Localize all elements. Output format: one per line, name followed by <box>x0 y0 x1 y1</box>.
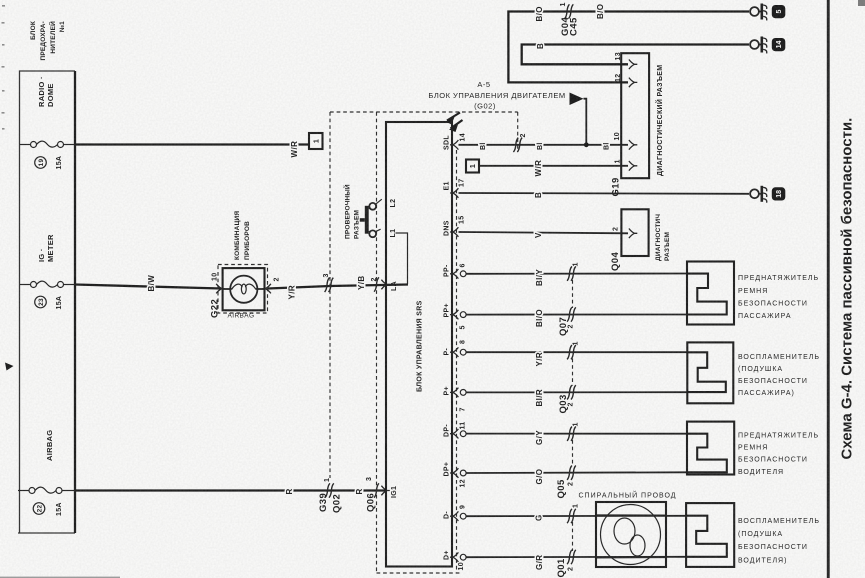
wire L1 to LA net <box>396 233 408 284</box>
bottom edge scan smudge <box>0 577 120 578</box>
label ПРЕДНАТЯЖИТЕЛЬ РЕМНЯ БЕЗОПАСНОСТИ ВОДИТЕЛЯ <box>738 433 819 477</box>
pin 7 fork P+ <box>450 388 467 412</box>
arrow mark left margin <box>5 363 14 371</box>
wire G D- to spiral cable <box>466 515 687 517</box>
dashed boundary left edge (connector plane Q02/G39) <box>329 112 331 478</box>
load box igniter passenger airbag <box>687 342 733 403</box>
fuse 19 (15A) <box>20 141 75 147</box>
label fuse 23 circled <box>35 296 47 308</box>
pin 9 fork D- <box>450 505 467 521</box>
connector box 1 (to G19 pin 1) <box>466 160 479 173</box>
pin 10 cluster <box>212 273 225 294</box>
connector break Q05 lower <box>556 466 576 499</box>
connector break Q06 <box>366 477 379 512</box>
G19 pin 1 fork <box>615 159 638 170</box>
connector break Q01 lower <box>556 550 576 578</box>
wire Y/R P- to igniter passenger <box>466 351 687 353</box>
label RADIO DOME <box>37 76 55 107</box>
airbag warning lamp <box>223 276 265 303</box>
connector break Q07 lower <box>558 307 576 336</box>
dashed link Q03 <box>572 359 574 386</box>
pin 11 fork DP- <box>450 422 467 439</box>
wire B to G19 pin 13 <box>522 45 749 65</box>
wire G/R D+ to spiral cable <box>466 556 687 558</box>
Q04 pin 2 fork <box>613 227 638 238</box>
wire B E1 to ground <box>459 192 750 195</box>
ground top B <box>750 37 785 54</box>
wire G/O DP+ to pretensioner driver <box>466 471 687 474</box>
connector break Q05 upper <box>567 422 579 441</box>
spiral cable box <box>596 502 666 567</box>
connector break Q03 upper <box>567 341 579 359</box>
page rule right <box>827 0 830 578</box>
check connector plug symbol <box>360 199 382 237</box>
label fuse box: БЛОК ПРЕДОХРАНИТЕЛЕЙ №1 <box>30 21 66 61</box>
pin 2 cluster <box>263 277 281 293</box>
wire G/Y DP- to pretensioner driver <box>466 433 687 435</box>
pin 12 fork DP+ <box>450 468 467 487</box>
instrument cluster G22 box <box>223 268 265 310</box>
pin 8 fork P- <box>450 340 467 357</box>
fuse 22 (15A) <box>18 487 75 493</box>
wire Bl/R P+ to igniter passenger <box>466 391 687 393</box>
label ДИАГНОСТИЧ РАЗЪЕМ <box>655 214 671 261</box>
SRS control unit box <box>386 122 452 567</box>
pin 10 fork D+ <box>450 552 466 570</box>
diagnostic connector Q04 box <box>621 209 648 256</box>
label fuse 22 circled <box>33 503 45 515</box>
ECU arrow flag <box>570 93 587 145</box>
dashed link Q07 <box>572 280 574 308</box>
label ВОСПЛАМЕНИТЕЛЬ ПОДУШКА БЕЗОПАСНОСТИ ПАССАЖИРА <box>738 354 820 397</box>
junction chevron 3 at dashed boundary <box>323 273 333 292</box>
connector break Q01 upper <box>567 504 579 523</box>
label ВОСПЛАМЕНИТЕЛЬ ПОДУШКА БЕЗОПАСНОСТИ ВОДИТЕЛЯ <box>738 518 820 565</box>
pin 17 fork E1 <box>450 179 466 198</box>
ECU callout A-5 <box>428 80 565 111</box>
pin LA fork <box>381 280 398 291</box>
load box pretensioner driver <box>687 422 734 475</box>
pin 14 fork SDL <box>450 133 467 149</box>
load box pretensioner passenger <box>687 262 734 325</box>
wire Bl/Y PP- to pretensioner <box>466 273 687 275</box>
label ПРЕДНАТЯЖИТЕЛЬ РЕМНЯ БЕЗОПАСНОСТИ ПАССАЖИРА <box>738 275 819 320</box>
G19 pin 12 fork <box>615 74 637 88</box>
wire Y/B to SRS pin LA <box>330 285 408 287</box>
connector break G39 Q02 <box>318 478 343 513</box>
pin 6 fork PP- <box>450 263 467 278</box>
connector break Q03 lower <box>558 385 576 413</box>
G19 pin 13 fork <box>615 52 637 69</box>
connector box 1 (from fuse 19) <box>309 133 323 149</box>
dashed link Q01 <box>572 522 574 551</box>
fuse box bus bar <box>74 71 76 533</box>
pin 15 fork DNS <box>450 216 466 237</box>
wire fuse22 R to SRS pin IG1 <box>75 489 386 491</box>
wire Y/R cluster to check connector <box>268 286 330 289</box>
wire W/R box1 to G19 pin 1 <box>479 165 628 167</box>
chevron pin 2 LA <box>371 277 379 291</box>
dashed SRS box right edge <box>456 150 458 573</box>
dashed boundary right edge ECU <box>517 112 519 152</box>
wire SDL Bl to G19 pin 10 <box>459 144 629 146</box>
wire fuse19 W/R to box 1 <box>75 143 309 145</box>
chevron ECU pin 2 on SDL wire <box>513 133 527 152</box>
fuse 23 (15A) <box>20 281 75 287</box>
diagnostic connector G19 box <box>621 53 649 178</box>
connector break Q07 upper <box>567 262 579 281</box>
scan noise overlay <box>0 0 1 1</box>
label ПРОВЕРОЧНЫЙ РАЗЪЕМ <box>343 184 361 239</box>
ground E1 <box>750 186 785 203</box>
dashed SRS box left edge <box>376 112 378 573</box>
load box igniter driver airbag <box>686 503 734 567</box>
label fuse 19 circled <box>35 157 47 169</box>
junction dot SDL/ECU <box>584 142 589 147</box>
connector break G04 C45 <box>560 2 580 36</box>
wire V DNS to Q04 <box>459 232 629 233</box>
wire Bl/O PP+ to pretensioner <box>466 314 687 316</box>
left margin scan marks <box>2 5 6 130</box>
fuse box №1 outline <box>18 71 75 533</box>
top right corner smudge <box>858 0 865 6</box>
ground top B/O <box>750 4 785 21</box>
corner break mark at SRS top right <box>446 113 463 133</box>
label КОМБИНАЦИЯ ПРИБОРОВ <box>234 211 251 260</box>
label IG METER <box>37 234 55 262</box>
dashed boundary top edge (ECU / connector region) <box>330 111 518 113</box>
instrument cluster dashed outline <box>218 265 268 314</box>
pin IG1 fork <box>381 486 398 498</box>
dashed SRS box bottom edge <box>377 572 461 574</box>
dashed link Q05 <box>572 440 574 466</box>
wire fuse23 B/W to instrument cluster <box>75 285 221 289</box>
pin 5 fork PP+ <box>450 310 467 330</box>
wire B/O top to G19 pin 12 <box>508 12 749 83</box>
G19 pin 10 fork <box>614 132 637 149</box>
